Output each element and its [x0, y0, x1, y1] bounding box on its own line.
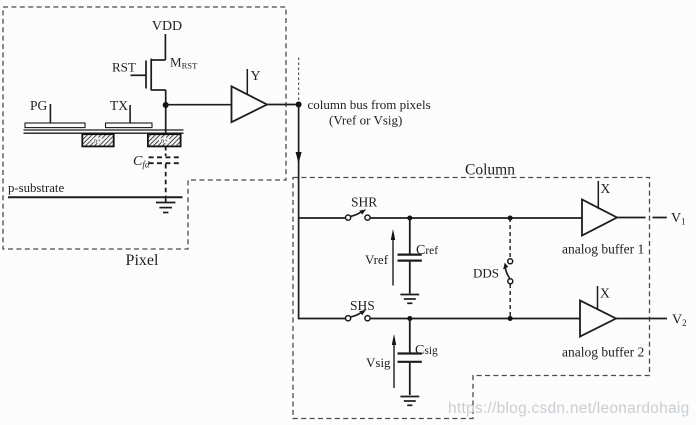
svg-text:Pixel: Pixel [126, 252, 159, 269]
svg-text:RST: RST [112, 60, 136, 75]
p-substrate line [8, 196, 183, 198]
svg-text:Csig: Csig [415, 343, 438, 358]
node column bus [296, 102, 302, 108]
column block border [293, 178, 650, 419]
op-amp analog buffer 1 [582, 200, 617, 236]
wire amp output [267, 104, 299, 106]
op-amp analog buffer 2 [580, 301, 616, 337]
n+ diffusion right [148, 134, 181, 146]
node FD [163, 102, 169, 108]
wire column bus upper (dash-dot) [298, 58, 300, 104]
svg-text:Column: Column [465, 162, 515, 179]
svg-text:https://blog.csdn.net/leonardo: https://blog.csdn.net/leonardohaig [448, 400, 690, 417]
svg-text:VDD: VDD [152, 19, 182, 34]
svg-text:PG: PG [30, 98, 48, 113]
ground Cref [400, 295, 419, 304]
wire TX lead [129, 105, 131, 124]
switch DDS [503, 218, 513, 319]
node row1 Cref [407, 216, 412, 221]
svg-text:n+: n+ [94, 138, 101, 145]
svg-text:SHS: SHS [350, 298, 375, 313]
node row1 DDS [508, 216, 513, 221]
wire X lead 1 [597, 181, 599, 209]
switch SHR [346, 209, 371, 220]
oxide surface lines [24, 129, 184, 131]
svg-text:analog buffer 1: analog buffer 1 [562, 242, 644, 257]
node row2 DDS [508, 316, 513, 321]
wire row1 [370, 217, 582, 219]
svg-text:Cref: Cref [416, 243, 438, 258]
ground Csig [400, 397, 419, 406]
ground (pixel) [156, 197, 175, 212]
wire buffer2 output [616, 318, 667, 320]
wire row2 [370, 318, 580, 320]
svg-text:column bus from pixels: column bus from pixels [308, 97, 431, 112]
svg-text:TX: TX [110, 98, 128, 113]
svg-text:V1: V1 [671, 211, 686, 227]
wire VDD lead [164, 34, 166, 60]
svg-text:SHR: SHR [351, 195, 377, 210]
capacitor Cref [398, 218, 422, 294]
capacitor C_fd [149, 147, 181, 198]
Vsig arrow [393, 343, 395, 388]
wire PG lead [49, 104, 51, 124]
svg-text:Vsig: Vsig [366, 355, 391, 370]
transistor M_RST [131, 59, 166, 105]
wire buffer1 output [617, 217, 667, 219]
svg-text:DDS: DDS [473, 266, 499, 281]
wire row2 drop [299, 218, 346, 319]
svg-text:Vref: Vref [365, 252, 389, 267]
wire row1 left [299, 217, 346, 219]
wire FD to amp [166, 104, 232, 106]
svg-text:X: X [600, 286, 610, 301]
capacitor Csig [398, 319, 422, 396]
switch SHS [346, 310, 371, 321]
svg-text:Cfd: Cfd [133, 154, 150, 170]
arrow on column bus [296, 152, 302, 164]
svg-text:(Vref or Vsig): (Vref or Vsig) [329, 113, 402, 128]
wire FD node to diffusion [165, 105, 167, 134]
svg-text:analog buffer 2: analog buffer 2 [562, 345, 644, 360]
svg-text:X: X [601, 181, 611, 196]
PG gate [25, 123, 85, 128]
pixel block border [3, 7, 286, 249]
svg-text:n+: n+ [161, 138, 168, 145]
wire column bus down [298, 105, 300, 219]
svg-text:Y: Y [251, 69, 261, 84]
wire X lead 2 [597, 286, 599, 310]
svg-text:p-substrate: p-substrate [8, 181, 64, 195]
Vref arrow [392, 238, 394, 286]
n+ diffusion left [82, 134, 113, 146]
svg-text:V2: V2 [672, 313, 687, 329]
node row2 Csig [407, 316, 412, 321]
TX gate [106, 123, 153, 128]
svg-text:MRST: MRST [170, 55, 198, 71]
wire Y lead [246, 69, 248, 95]
op-amp Y (pixel buffer) [232, 86, 268, 122]
